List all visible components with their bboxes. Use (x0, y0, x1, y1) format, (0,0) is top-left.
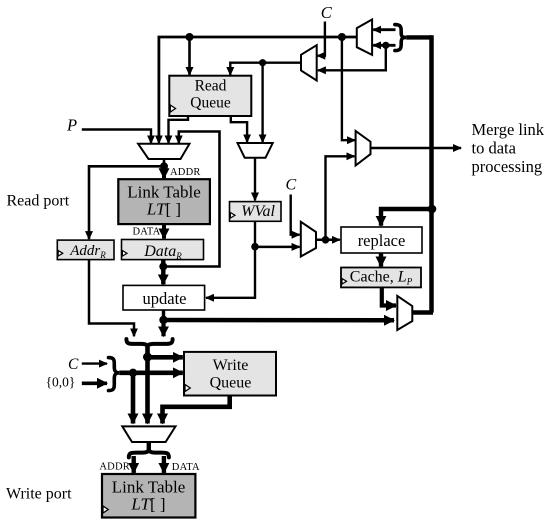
wire right vertical bus (429, 35, 434, 312)
wire J11 to Write Queue input 1 (148, 355, 183, 360)
svg-text:LT[ ]: LT[ ] (146, 200, 181, 219)
wire merge mux output to Merge link arrow (371, 147, 462, 150)
brace split write (129, 449, 169, 457)
wire J2 down to merge mux input 1 (342, 37, 355, 140)
wire brace to mux U1 input 1 (373, 28, 395, 31)
wire J3 down to mux U2 input 2 (318, 45, 386, 70)
wire J7 down to merge brace (161, 320, 165, 336)
svg-text:Read port: Read port (7, 193, 70, 210)
register Cache Lp (341, 268, 421, 288)
svg-text:processing: processing (472, 157, 543, 176)
label {0,0} (46, 375, 76, 390)
mux U1 top-right left-pointing (357, 20, 372, 55)
wire J10 to replace top (381, 209, 432, 226)
label Merge link to data processing (472, 120, 545, 176)
svg-text:DATA: DATA (172, 462, 200, 473)
node J6 below Data_R (159, 263, 167, 271)
node J7 below update (159, 316, 167, 324)
svg-text:update: update (143, 289, 187, 308)
wire ADDR into write Link Table (131, 456, 135, 473)
wire mux U3 output (163, 159, 166, 168)
node J11 on write bus (143, 353, 152, 362)
node J3 on mux U1 input 2 (382, 42, 389, 49)
svg-text:ADDR: ADDR (170, 167, 201, 178)
brace merge above write bus (126, 339, 172, 347)
wire C top down into mux U2 input 1 (317, 22, 325, 56)
wire write mux output (147, 442, 151, 451)
register Data_R (122, 240, 204, 262)
label Write port (6, 486, 72, 503)
svg-text:ADDR: ADDR (99, 462, 130, 473)
register read Link Table LT (118, 179, 210, 224)
node J8 below WVal (251, 243, 259, 251)
wire top bus from mux U1 output left to read mux (159, 37, 357, 143)
wire Write Queue output to write mux input 3 (163, 396, 230, 424)
wire brace tip to right bus (406, 35, 431, 39)
wire Cache output to mux U8 input 1 (382, 287, 396, 305)
label DATA read (133, 227, 161, 238)
node J12 on write C line (129, 369, 137, 377)
node J2 on top bus (338, 33, 346, 41)
label ADDR write (99, 462, 130, 473)
mux U7 merge mux right-pointing (356, 131, 371, 166)
svg-text:C: C (321, 3, 333, 22)
label C mid right (285, 177, 296, 194)
wire WVal output down (254, 221, 256, 248)
wire P to read mux input 1 (82, 130, 151, 144)
register Write Queue (184, 352, 276, 396)
wire write bus brace down (145, 347, 150, 424)
wire J9 up to merge mux input 2 (326, 156, 355, 240)
svg-text:Queue: Queue (190, 95, 231, 112)
svg-text:{0,0}: {0,0} (46, 375, 76, 390)
svg-text:DATA: DATA (133, 227, 161, 238)
svg-text:WVal: WVal (241, 203, 275, 220)
register Addr_R (57, 240, 114, 260)
svg-text:to data: to data (472, 138, 517, 157)
svg-text:C: C (285, 177, 296, 194)
wire ADDR into read Link Table (162, 166, 166, 178)
wire replace to Cache (379, 253, 383, 267)
mux U4 (238, 143, 273, 158)
svg-text:C: C (68, 356, 79, 373)
wire C write arrow (82, 362, 107, 364)
node J5 below read mux (160, 162, 168, 170)
wire update output (162, 310, 165, 321)
label Read port (7, 193, 70, 210)
svg-text:Write: Write (213, 357, 249, 374)
label DATA write (172, 462, 200, 473)
wire J5 left down to Addr_R (89, 166, 164, 239)
label C write (68, 356, 79, 373)
wire Addr_R output to merge brace (89, 260, 134, 337)
label P (66, 116, 77, 135)
wire brace to mux U1 input 2 (373, 44, 395, 47)
wire J4 down to mux U4 input 2 (261, 63, 263, 143)
svg-text:replace: replace (358, 231, 406, 250)
brace split top-right (395, 25, 406, 51)
svg-text:LT[ ]: LT[ ] (130, 495, 165, 514)
wire write C line right to Write Queue input 2 (119, 370, 183, 375)
svg-text:P: P (66, 116, 77, 135)
wire Data_R output down to update (161, 260, 165, 285)
svg-text:Merge link: Merge link (472, 120, 545, 139)
svg-text:Queue: Queue (210, 374, 252, 391)
wire mux U2 output to Read Queue input 2 (230, 63, 301, 75)
svg-text:Link Table: Link Table (112, 477, 186, 496)
mux U2 left-pointing (301, 45, 317, 80)
svg-text:Read: Read (195, 77, 227, 94)
wire Read Queue output 2 to mux U4 input 1 (231, 117, 247, 143)
wire J1 down to Read Queue input (188, 37, 191, 75)
block replace (341, 227, 422, 253)
wire Data_R feedback up to read mux input 4 (163, 132, 219, 267)
register Read Queue (169, 76, 251, 116)
register WVal (230, 202, 282, 222)
wire J12 down to write mux input 1 (131, 373, 136, 424)
node J10 on right bus (428, 205, 437, 214)
mux U8 right-pointing (397, 296, 412, 330)
wire mux U8 output to right bus (412, 310, 433, 315)
mux U3 read address mux (138, 144, 189, 159)
svg-text:Write port: Write port (6, 486, 72, 503)
wire mux U5 output to replace (316, 239, 340, 242)
node J9 right of mux U5 (322, 236, 330, 244)
wire DATA read Link Table to Data_R (162, 224, 166, 238)
node J4 on mux U2 output (259, 59, 266, 66)
block update (123, 285, 205, 310)
wire mux U4 output to WVal (254, 158, 256, 201)
wire Read Queue output 1 to read mux input 3 (169, 117, 189, 144)
label C top (321, 3, 333, 22)
register write Link Table LT (102, 474, 195, 518)
mux U6 write mux (122, 426, 175, 442)
svg-text:Cache, LP: Cache, LP (350, 268, 413, 286)
node J1 on top bus (186, 33, 194, 41)
mux U5 right-pointing (301, 222, 316, 257)
wire C down into mux U5 input 1 (291, 195, 300, 235)
label ADDR read (170, 167, 201, 178)
wire J7 thick to mux U8 input 2 (164, 318, 395, 323)
wire DATA into write Link Table (162, 456, 166, 473)
brace write inputs (109, 358, 120, 391)
wire WVal line into update right side (206, 247, 255, 298)
wire J8 right to mux U5 input 2 (255, 246, 300, 249)
wire {0,0} arrow (82, 381, 107, 385)
